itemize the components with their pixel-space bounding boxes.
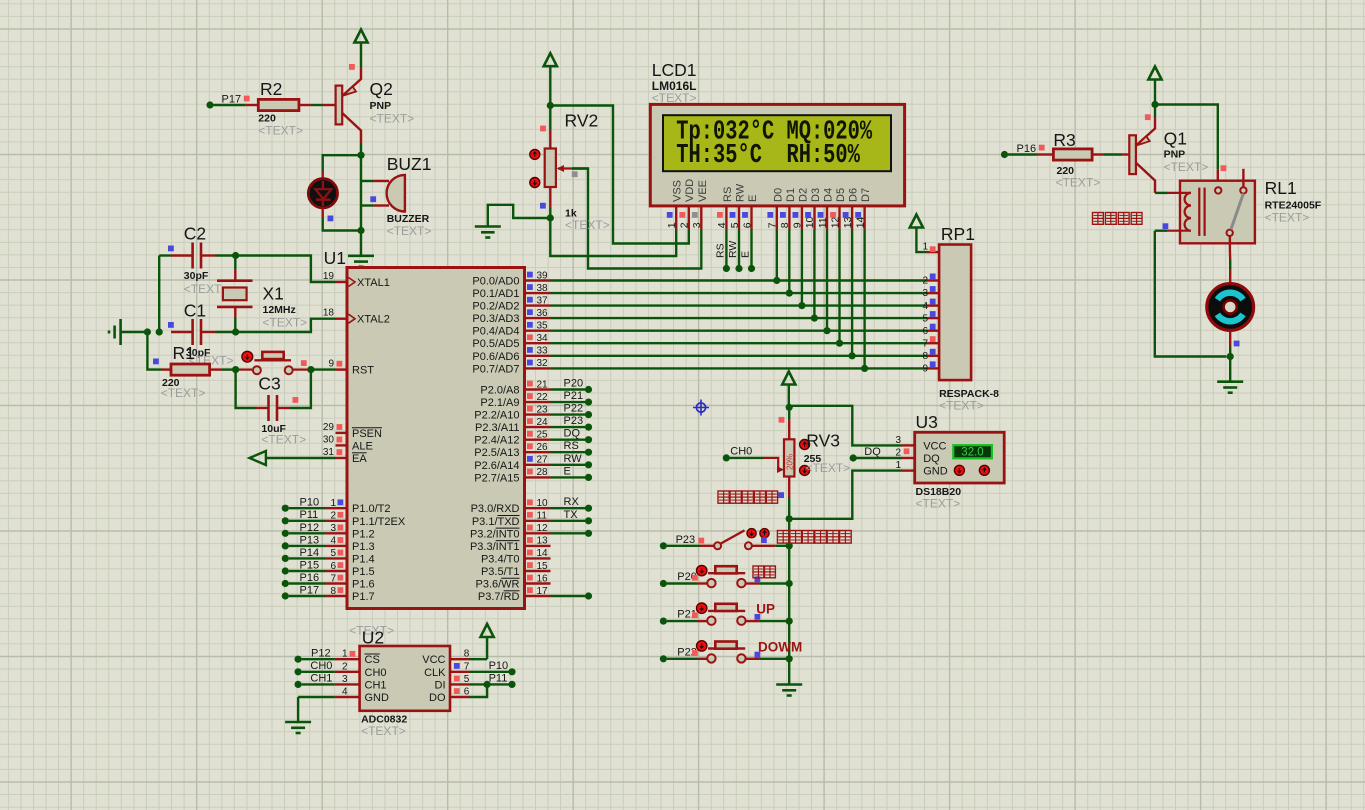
svg-text:<TEXT>: <TEXT> (652, 91, 697, 105)
relay coil (1155, 192, 1167, 194)
pin-state squares RV3 (779, 417, 785, 423)
RV3 adjust buttons (800, 440, 810, 450)
svg-text:<TEXT>: <TEXT> (258, 124, 303, 138)
svg-text:GND: GND (923, 466, 948, 478)
wire C2-C1 left vertical (158, 256, 160, 333)
svg-text:P12: P12 (311, 648, 331, 660)
svg-text:P2.6/A14: P2.6/A14 (474, 460, 519, 472)
U2 pin 1 CS wire P12 (295, 656, 302, 663)
svg-text:5: 5 (729, 222, 741, 228)
U1 pin P3.6 (pin 16) (525, 582, 551, 584)
svg-text:P2.1/A9: P2.1/A9 (480, 397, 519, 409)
svg-text:8: 8 (779, 222, 791, 228)
svg-text:P2.2/A10: P2.2/A10 (474, 410, 519, 422)
wire down to R1 (147, 332, 162, 370)
svg-text:P3.6/WR: P3.6/WR (475, 579, 519, 591)
svg-text:6: 6 (464, 687, 470, 698)
LCD pin 3 VEE (700, 206, 702, 230)
svg-text:<TEXT>: <TEXT> (184, 282, 229, 296)
U1 pin P0.3 (pin 36) (525, 317, 551, 319)
svg-text:BUZ1: BUZ1 (387, 154, 432, 174)
svg-text:X1: X1 (263, 284, 284, 304)
wire XTAL2 net to U1 (236, 319, 336, 332)
svg-text:D5: D5 (835, 188, 847, 202)
U1 pin P3.4 (pin 14) (525, 557, 551, 559)
svg-text:1: 1 (342, 649, 348, 660)
ground zigzag left of RV2 (488, 205, 551, 227)
wire button to RST (239, 369, 252, 371)
svg-text:9: 9 (922, 364, 928, 375)
svg-text:4: 4 (330, 536, 336, 547)
wire AD1 bus U1 to RP1 (551, 292, 927, 294)
U1 pin P0.1 (pin 38) (525, 292, 551, 294)
wire U3 VCC to power (792, 406, 902, 446)
svg-text:CS: CS (365, 654, 380, 666)
svg-text:13: 13 (537, 536, 549, 547)
RP1 pin 6 (927, 330, 940, 332)
svg-text:<TEXT>: <TEXT> (1056, 176, 1101, 190)
U1 pin P0.4 (pin 35) (525, 330, 551, 332)
svg-text:RV2: RV2 (565, 111, 599, 131)
svg-text:12MHz: 12MHz (263, 304, 296, 316)
ground below key column (776, 683, 802, 686)
power symbol above U2 VCC (481, 624, 494, 637)
U1 pin P3.0 (pin 10) (525, 507, 551, 509)
svg-text:D7: D7 (860, 188, 872, 202)
svg-text:GND: GND (365, 692, 390, 704)
U1 pin XTAL2 (336, 318, 348, 320)
svg-text:P3.5/T1: P3.5/T1 (481, 566, 520, 578)
pin-state square C2 (168, 246, 174, 252)
svg-text:R3: R3 (1053, 130, 1075, 150)
push button P20 (SET) (660, 580, 667, 587)
U2 pin 3 CH1 (295, 681, 302, 688)
svg-text:D2: D2 (797, 188, 809, 202)
svg-text:C3: C3 (258, 374, 280, 394)
svg-text:P0.6/AD6: P0.6/AD6 (472, 351, 519, 363)
svg-text:LCD1: LCD1 (652, 60, 697, 80)
pin-state square C3 (293, 397, 299, 403)
svg-text:RST: RST (352, 365, 374, 377)
pin-state square LED cathode (328, 216, 334, 222)
svg-text:P0.3/AD3: P0.3/AD3 (472, 313, 519, 325)
svg-text:VCC: VCC (422, 654, 445, 666)
junction RV2 power (547, 102, 554, 109)
svg-text:6: 6 (741, 222, 753, 228)
microcontroller U1 body (347, 268, 525, 609)
svg-text:DQ: DQ (923, 453, 940, 465)
junction motor bottom (1229, 347, 1231, 357)
wire Q2 collector to buzzer/LED net (360, 143, 362, 231)
svg-text:9: 9 (792, 222, 804, 228)
U1 pin P0.5 (pin 34) (525, 342, 551, 344)
svg-text:15: 15 (537, 561, 549, 572)
U1 pin EA with arrow (336, 457, 348, 459)
LCD pin 1 VSS (675, 206, 677, 230)
wire AD5 bus U1 to RP1 (551, 342, 927, 344)
wire coil return to motor bottom (1155, 231, 1227, 357)
svg-text:29: 29 (323, 422, 335, 433)
svg-text:TH:35°C RH:50%: TH:35°C RH:50% (676, 141, 860, 172)
svg-text:E: E (564, 465, 571, 477)
wire AD6 bus U1 to RP1 (551, 355, 927, 357)
svg-text:P0.1/AD1: P0.1/AD1 (472, 288, 519, 300)
svg-text:6: 6 (330, 561, 336, 572)
junction Q1 emitter power (1151, 101, 1158, 108)
U1 pin P1.2 (pin 3) with wire P12 (282, 530, 289, 537)
svg-text:12: 12 (829, 216, 841, 228)
junction RV3 top (786, 404, 793, 411)
svg-text:34: 34 (537, 333, 549, 344)
svg-text:C2: C2 (184, 224, 206, 244)
switch P23 (analog fault) (660, 542, 667, 549)
U2 pin 7 CLK wire P10 (450, 671, 470, 673)
U1 pin P2.6 (pin 27) wire RW (525, 464, 551, 466)
RP1 pin 4 (927, 304, 940, 306)
svg-text:DO: DO (429, 692, 446, 704)
svg-text:<TEXT>: <TEXT> (263, 316, 308, 330)
svg-text:XTAL1: XTAL1 (357, 277, 390, 289)
LCD pin 6 E (750, 206, 752, 230)
push button P22 (DOWM) (660, 655, 667, 662)
power symbol above RV3 (782, 372, 795, 385)
svg-text:P2.3/A11: P2.3/A11 (475, 422, 519, 434)
svg-text:<TEXT>: <TEXT> (806, 461, 851, 475)
pin-state squares RV2 (540, 126, 546, 132)
U1 pin P3.5 (pin 15) (525, 570, 551, 572)
svg-text:<TEXT>: <TEXT> (565, 218, 610, 232)
wire AD7 bus U1 to RP1 (551, 367, 927, 369)
svg-text:21: 21 (537, 379, 549, 390)
svg-text:U2: U2 (362, 628, 384, 648)
svg-text:PNP: PNP (1164, 149, 1186, 161)
svg-text:RS: RS (715, 243, 727, 258)
label water pump module (CJK) (1093, 213, 1104, 225)
RP1 pin 1 (927, 251, 940, 253)
U1 pin P3.3 (pin 13) (525, 545, 551, 547)
junction ground/C1 (144, 328, 151, 335)
wire AD3 bus U1 to RP1 (551, 317, 927, 319)
svg-text:<TEXT>: <TEXT> (916, 497, 961, 511)
key bus vertical (788, 519, 790, 684)
wire AD4 bus U1 to RP1 (551, 330, 927, 332)
svg-text:R1: R1 (173, 343, 195, 363)
junction at Q2 collector / LED top (357, 152, 364, 159)
relay core (1198, 188, 1200, 236)
svg-text:25: 25 (537, 430, 549, 441)
svg-text:P0.4/AD4: P0.4/AD4 (472, 326, 519, 338)
U2 pin 2 CH0 (295, 668, 302, 675)
wire power to relay contact (1155, 105, 1218, 170)
svg-text:P0.0/AD0: P0.0/AD0 (472, 276, 519, 288)
LCD pin 7 D0 (776, 206, 778, 230)
svg-text:P1.7: P1.7 (352, 591, 375, 603)
LCD pin 2 VDD (688, 206, 690, 230)
pin-state square Q1 emitter (1145, 114, 1151, 120)
LCD pin 9 D2 (801, 206, 803, 230)
svg-text:D4: D4 (823, 188, 835, 202)
svg-text:32.0: 32.0 (961, 447, 983, 459)
svg-text:3: 3 (330, 523, 336, 534)
svg-text:P2.0/A8: P2.0/A8 (480, 385, 519, 397)
pin-state square Q2 emitter (349, 64, 355, 70)
wire D3 vertical to bus with junction (813, 230, 815, 318)
svg-text:D1: D1 (785, 188, 797, 202)
svg-text:22: 22 (537, 392, 549, 403)
svg-text:P2.5/A13: P2.5/A13 (474, 447, 519, 459)
LCD pin 12 D5 (838, 206, 840, 230)
svg-text:2: 2 (342, 661, 348, 672)
svg-text:CH0: CH0 (310, 660, 332, 672)
svg-text:11: 11 (817, 217, 829, 228)
svg-text:35: 35 (537, 321, 549, 332)
buzzer BUZ1 (361, 180, 373, 182)
U3 pin 3 VCC (902, 444, 915, 446)
U2 pin 6 DO (450, 696, 470, 698)
wire D1 vertical to bus with junction (788, 230, 790, 293)
U1 pin P0.7 (pin 32) (525, 367, 551, 369)
RP1 pin 2 (927, 279, 940, 281)
svg-text:XTAL2: XTAL2 (357, 314, 390, 326)
pin-state square buzzer (370, 196, 376, 202)
svg-text:P21: P21 (564, 390, 584, 402)
svg-text:RL1: RL1 (1265, 178, 1297, 198)
svg-text:8: 8 (922, 351, 928, 362)
wire U3 DQ with label (856, 457, 902, 459)
U1 pin P2.1 (pin 22) wire P21 (525, 401, 551, 403)
svg-text:PNP: PNP (370, 100, 392, 112)
svg-text:CLK: CLK (424, 667, 446, 679)
ground left of C1 (121, 331, 148, 333)
svg-text:<TEXT>: <TEXT> (161, 386, 206, 400)
ground below buzzer net (360, 231, 362, 256)
wire XTAL1 net to U1 (236, 256, 336, 283)
U2 pin 8 VCC (450, 658, 470, 660)
U1 pin P3.1 (pin 11) (525, 520, 551, 522)
svg-text:P13: P13 (300, 534, 320, 546)
svg-text:P10: P10 (300, 497, 320, 509)
transistor Q2 (336, 86, 343, 125)
capacitor C2 (191, 243, 194, 269)
wire VEE to RV2 wiper (572, 169, 701, 269)
svg-text:R2: R2 (260, 79, 282, 99)
resistor R3 (1053, 149, 1092, 160)
LCD pin 8 D1 (788, 206, 790, 230)
U1 pin P3.2 (pin 12) (525, 532, 551, 534)
push button P21 (UP) (660, 618, 667, 625)
svg-text:1: 1 (666, 222, 678, 228)
svg-text:UP: UP (756, 602, 775, 617)
U1 pin P2.5 (pin 26) wire RS (525, 451, 551, 453)
svg-text:VEE: VEE (697, 180, 709, 202)
label SET (CJK) (753, 566, 764, 578)
svg-text:3: 3 (922, 288, 928, 299)
U1 pin P1.7 (pin 8) with wire P17 (282, 592, 289, 599)
svg-text:P17: P17 (300, 585, 320, 597)
svg-text:D6: D6 (848, 188, 860, 202)
svg-text:20%: 20% (785, 454, 794, 470)
ground below motor (1229, 357, 1231, 381)
svg-text:8: 8 (330, 586, 336, 597)
LCD pin 13 D6 (851, 206, 853, 230)
svg-text:7: 7 (330, 573, 336, 584)
svg-text:1: 1 (922, 242, 928, 253)
svg-text:5: 5 (464, 674, 470, 685)
relay contacts (1215, 187, 1221, 193)
svg-text:RW: RW (564, 453, 583, 465)
svg-text:P1.0/T2: P1.0/T2 (352, 503, 391, 515)
svg-text:P3.7/RD: P3.7/RD (478, 591, 520, 603)
RP1 pin 3 (927, 292, 940, 294)
svg-text:4: 4 (342, 687, 348, 698)
svg-text:23: 23 (537, 404, 549, 415)
svg-text:P12: P12 (300, 522, 320, 534)
svg-text:CH0: CH0 (730, 446, 752, 458)
wire RW below LCD with label and end junction (738, 230, 740, 269)
RP1 pin 7 (927, 342, 940, 344)
svg-text:P10: P10 (489, 660, 509, 672)
LCD pin 4 RS (725, 206, 727, 230)
svg-text:D3: D3 (810, 188, 822, 202)
svg-text:33: 33 (537, 346, 549, 357)
wire D0 vertical to bus with junction (776, 230, 778, 281)
svg-text:P2.7/A15: P2.7/A15 (474, 472, 519, 484)
svg-text:11: 11 (537, 511, 548, 522)
wire AD0 bus U1 to RP1 (551, 279, 927, 281)
svg-text:3: 3 (342, 674, 348, 685)
junction bottom of buzzer net (357, 227, 364, 234)
U2 ADC0832 body (360, 646, 450, 711)
junction RST left (232, 366, 239, 373)
svg-text:Q1: Q1 (1164, 129, 1187, 149)
svg-text:<TEXT>: <TEXT> (370, 112, 415, 126)
svg-text:RW: RW (727, 241, 739, 258)
svg-text:PSEN: PSEN (352, 428, 382, 440)
label smoke sensor (CJK) (718, 491, 729, 503)
svg-text:RP1: RP1 (941, 224, 975, 244)
wire U3 GND to key bus (792, 471, 902, 519)
U1 pin P0.2 (pin 37) (525, 304, 551, 306)
wire relay common to motor (1229, 250, 1232, 260)
wire R3 to Q1 base (1092, 153, 1104, 155)
svg-text:CH1: CH1 (365, 679, 387, 691)
svg-text:27: 27 (537, 455, 549, 466)
wire D4 vertical to bus with junction (826, 230, 828, 331)
U1 pin P0.6 (pin 33) (525, 355, 551, 357)
LCD pin 5 RW (738, 206, 740, 230)
U1 pin P1.6 (pin 7) with wire P16 (282, 580, 289, 587)
svg-text:1: 1 (330, 498, 336, 509)
svg-text:19: 19 (323, 271, 335, 282)
svg-text:P16: P16 (300, 572, 320, 584)
wire D7 vertical to bus with junction (863, 230, 865, 368)
svg-text:EA: EA (352, 453, 367, 465)
power symbol above RP1 (910, 215, 923, 228)
svg-text:4: 4 (922, 301, 928, 312)
LCD1 display body (650, 104, 904, 205)
RP1 pin 8 (927, 355, 940, 357)
wire RS below LCD with label and end junction (725, 230, 727, 269)
svg-text:7: 7 (922, 338, 928, 349)
svg-text:14: 14 (537, 548, 549, 559)
U3 pin 1 GND (902, 469, 915, 471)
U1 pin P1.4 (pin 5) with wire P14 (282, 555, 289, 562)
wire LED cathode to bottom junction (323, 218, 361, 231)
svg-text:36: 36 (537, 308, 549, 319)
svg-text:17: 17 (537, 586, 549, 597)
svg-text:E: E (747, 195, 759, 202)
svg-text:2: 2 (922, 276, 928, 287)
U1 pin P1.5 (pin 6) with wire P15 (282, 567, 289, 574)
svg-text:4: 4 (716, 222, 728, 228)
wire RST junction to U1 (311, 368, 336, 370)
wire VSS to RV2 bottom / ground net (550, 218, 676, 256)
RP1 pin 5 (927, 317, 940, 319)
junction RST right (307, 366, 314, 373)
svg-text:39: 39 (537, 270, 549, 281)
svg-text:<TEXT>: <TEXT> (361, 724, 406, 738)
U1 pin P2.0 (pin 21) wire P20 (525, 388, 551, 390)
power symbol above Q2 (354, 30, 367, 43)
svg-text:P11: P11 (489, 672, 508, 684)
svg-text:P20: P20 (564, 378, 584, 390)
svg-text:U3: U3 (916, 412, 938, 432)
RP1 pin 9 (927, 367, 940, 369)
svg-text:P17: P17 (222, 94, 242, 106)
LCD screen (663, 115, 891, 171)
wire E below LCD with label and end junction (750, 230, 752, 269)
resistor R2 (258, 99, 299, 110)
svg-text:ALE: ALE (352, 441, 373, 453)
svg-text:VCC: VCC (923, 440, 946, 452)
U1 pin RST (336, 368, 348, 370)
svg-text:RX: RX (564, 496, 580, 508)
svg-text:U1: U1 (324, 248, 346, 268)
crystal X1 (223, 288, 247, 301)
svg-text:24: 24 (537, 417, 549, 428)
svg-text:10: 10 (537, 498, 549, 509)
svg-text:9: 9 (328, 359, 334, 370)
svg-text:TX: TX (564, 509, 579, 521)
capacitor C1 (191, 319, 194, 345)
LCD pin 11 D4 (826, 206, 828, 230)
svg-text:DI: DI (435, 679, 446, 691)
wire D6 vertical to bus with junction (851, 230, 853, 356)
svg-text:D0: D0 (772, 188, 784, 202)
svg-text:<TEXT>: <TEXT> (939, 399, 984, 413)
wire to LED anode (323, 155, 361, 172)
svg-text:26: 26 (537, 442, 549, 453)
U1 pin XTAL1 (336, 281, 348, 283)
pin-state square R1 (153, 359, 159, 365)
svg-text:13: 13 (842, 216, 854, 228)
svg-text:8: 8 (464, 649, 470, 660)
svg-text:P1.2: P1.2 (352, 528, 375, 540)
svg-text:P3.2/INT0: P3.2/INT0 (470, 528, 520, 540)
svg-text:RS: RS (722, 187, 734, 202)
RV3 wiper from CH0 (723, 454, 730, 461)
svg-text:P1.1/T2EX: P1.1/T2EX (352, 516, 406, 528)
svg-text:P0.2/AD2: P0.2/AD2 (472, 301, 519, 313)
svg-text:P16: P16 (1017, 143, 1037, 155)
pin-state square motor (1234, 341, 1240, 347)
svg-text:<TEXT>: <TEXT> (261, 433, 306, 447)
svg-text:P1.4: P1.4 (352, 553, 375, 565)
power symbol above RV2 (544, 53, 557, 66)
svg-text:P14: P14 (300, 547, 320, 559)
pin-state square relay contact (1221, 165, 1227, 171)
relay RL1 body (1180, 181, 1255, 244)
